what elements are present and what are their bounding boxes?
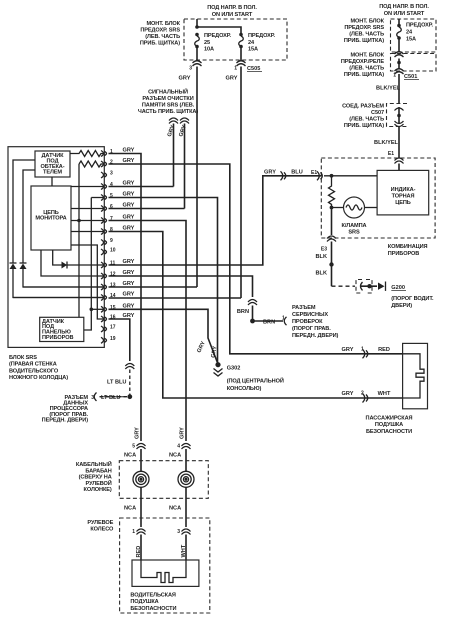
svg-text:РАЗЪЕМ: РАЗЪЕМ (292, 305, 316, 311)
wire: LT BLU dashed segment (129, 370, 131, 397)
svg-text:ПОД НАПР. В ПОЛ.: ПОД НАПР. В ПОЛ. (379, 4, 429, 10)
wire: monitor to pin8 (71, 231, 104, 233)
svg-text:КОЛЕСО: КОЛЕСО (90, 527, 114, 533)
svg-text:10А: 10А (204, 47, 214, 53)
svg-text:GRY: GRY (123, 292, 135, 298)
svg-text:3: 3 (189, 66, 192, 72)
SRS connector pin terminals column (101, 151, 107, 344)
label: signal connector for SRS memory clearing (138, 88, 199, 116)
svg-text:G200: G200 (391, 285, 405, 291)
svg-text:(ПОД ЦЕНТРАЛЬНОЙ: (ПОД ЦЕНТРАЛЬНОЙ (227, 377, 284, 385)
svg-text:GRY: GRY (123, 226, 135, 232)
svg-text:БЕЗОПАСНОСТИ: БЕЗОПАСНОСТИ (366, 429, 412, 435)
wire: BLK/YEL vertical (398, 74, 400, 104)
svg-text:БАРАБАН: БАРАБАН (85, 468, 111, 474)
svg-text:GRY: GRY (123, 181, 135, 187)
connector C501 at relay box exit (393, 69, 419, 80)
svg-text:GRY: GRY (123, 303, 135, 309)
svg-text:NCA: NCA (124, 453, 136, 459)
connector pin1 in steering wheel (137, 529, 146, 535)
connector pin4 above cable reel (182, 444, 191, 450)
wire: sensor to monitor circuit (51, 177, 53, 186)
svg-text:ДВЕРИ): ДВЕРИ) (391, 303, 412, 309)
junction dot at lamp branch (330, 174, 334, 178)
resistor R1 on pin1 wire (70, 151, 104, 157)
svg-text:ПРИБ. ЩИТКА): ПРИБ. ЩИТКА) (344, 123, 384, 129)
wire: pin2 GRY to passenger airbag RED (109, 164, 403, 354)
svg-text:RED: RED (378, 347, 390, 353)
connector bracket at G200 (dashed) (356, 280, 362, 294)
svg-text:ТЕЛЕМ: ТЕЛЕМ (43, 170, 62, 176)
svg-text:3: 3 (177, 529, 180, 535)
svg-text:1: 1 (393, 73, 396, 79)
svg-text:GRY: GRY (179, 76, 191, 82)
svg-text:1: 1 (132, 529, 135, 535)
svg-text:LT BLU: LT BLU (107, 380, 126, 386)
svg-text:ТОРНАЯ: ТОРНАЯ (392, 194, 415, 200)
fuse box dashed enclosure (left) (184, 19, 287, 60)
fuse F24 (ПРЕДОХР. 24 15A) (239, 33, 276, 60)
wire: feed into right fuse (398, 19, 400, 25)
label: РАЗЪЕМ СЕРВИСНЫХ ПРОВЕРОК (292, 305, 339, 339)
svg-text:WHT: WHT (181, 544, 187, 557)
svg-text:GRY: GRY (123, 281, 135, 287)
svg-text:GRY: GRY (123, 158, 135, 164)
connector E3 at cluster bottom (327, 236, 336, 242)
connector inline on pin12 wire (service check) (248, 300, 257, 306)
svg-text:ПЕРЕДН. ДВЕРИ): ПЕРЕДН. ДВЕРИ) (42, 417, 89, 423)
svg-text:(ПОРОГ ПРАВ.: (ПОРОГ ПРАВ. (292, 326, 331, 332)
wire: pin6 GRY to signal connector 2 (109, 208, 185, 210)
svg-text:GRY: GRY (123, 259, 135, 265)
svg-text:C505: C505 (247, 66, 260, 72)
svg-text:BRN: BRN (263, 319, 275, 325)
svg-text:РУЛЕВОЕ: РУЛЕВОЕ (87, 520, 113, 526)
wire: pin5 row from internal riser (91, 197, 104, 199)
svg-text:BLK/YEL: BLK/YEL (376, 86, 401, 92)
svg-text:BLK: BLK (316, 254, 328, 260)
svg-text:ПОДУШКА: ПОДУШКА (130, 599, 158, 605)
cowl sensor box (ДАТЧИК ПОД ОБТЕКАТЕЛЕМ) (35, 151, 70, 177)
wire: pin13 GRY to fuse25 riser (109, 286, 198, 288)
junction dot at fuse feed (195, 25, 199, 29)
svg-text:SRS: SRS (348, 230, 360, 236)
svg-text:ПРЕДОХР. SRS: ПРЕДОХР. SRS (344, 25, 384, 31)
wire: BLK/YEL vertical lower (398, 127, 400, 159)
connector: signal connector terminal 2 (180, 118, 189, 124)
wire: pin1 GRY to cable reel pin5 (109, 154, 142, 442)
connector pin3 in steering wheel (182, 529, 191, 535)
svg-text:GRY: GRY (123, 313, 135, 319)
steering wheel dashed box (120, 518, 210, 613)
resistor R3 (cluster) vertical (329, 176, 335, 208)
wire: pin7 GRY to cable reel pin4 (109, 221, 187, 442)
svg-text:GRY: GRY (342, 347, 354, 353)
cable reel spiral left (133, 471, 149, 487)
driver airbag box (132, 560, 199, 586)
wire: lamp junction down to E3 exit (331, 208, 333, 236)
wire: fuse25 GRY vertical down to SRS pin13 (196, 67, 198, 288)
wire: feed into fuse box, junction (197, 19, 241, 34)
svg-text:4: 4 (177, 444, 180, 450)
wire: pin11 GRY to cluster E1 (109, 176, 322, 265)
connector C507 dashed bracket (387, 104, 408, 127)
svg-text:5: 5 (132, 444, 135, 450)
svg-text:НОЖНОГО КОЛОДЦА): НОЖНОГО КОЛОДЦА) (9, 375, 68, 381)
svg-text:BLU: BLU (291, 170, 303, 176)
svg-text:ON ИЛИ START: ON ИЛИ START (212, 12, 253, 18)
svg-text:ПРИБ. ЩИТКА): ПРИБ. ЩИТКА) (140, 41, 180, 47)
svg-text:(ЛЕВ. ЧАСТЬ: (ЛЕВ. ЧАСТЬ (349, 117, 384, 123)
pin numbers 1-17,19 (110, 149, 116, 342)
wire: pin16 GRY to data link connector (LT BLU) (109, 319, 130, 361)
wire: pin13 row inside (23, 286, 104, 288)
svg-text:25: 25 (204, 40, 210, 46)
svg-text:1: 1 (282, 316, 285, 322)
label: МОНТ. БЛОК ПРЕДОХР./РЕЛЕ (341, 53, 385, 79)
node: power feed label (ON or START), left (207, 5, 257, 18)
wire: NCA into cable reel left (140, 449, 142, 472)
wire: signal2 vertical down to SRS pin6 (184, 124, 186, 209)
wire: WHT into driver airbag (185, 535, 187, 561)
driver airbag squib (igniter) (141, 560, 186, 583)
svg-text:GRY: GRY (123, 215, 135, 221)
splice dot data link (127, 394, 132, 399)
svg-text:ВОДИТЕЛЬСКОГО: ВОДИТЕЛЬСКОГО (9, 368, 59, 374)
svg-text:ЦЕПЬ: ЦЕПЬ (395, 200, 411, 206)
wire: signal1 vertical down to SRS pin4 (173, 124, 175, 187)
svg-text:GRY: GRY (135, 427, 141, 439)
svg-text:КОМБИНАЦИЯ: КОМБИНАЦИЯ (388, 244, 428, 250)
wire: monitor right edge to pin16 (data line) (71, 245, 104, 319)
svg-text:ПРИБ. ЩИТКА): ПРИБ. ЩИТКА) (344, 38, 384, 44)
wire: pin14 GRY to fuse24 riser (109, 297, 242, 299)
diode D3 (right) on pin11 wire (62, 262, 68, 269)
wire through relay box with splice dot (398, 59, 400, 70)
label: РУЛЕВОЕ КОЛЕСО (87, 520, 114, 533)
node: power feed label (ON or START), right (379, 4, 429, 17)
svg-text:ПЕРЕДН. ДВЕРИ): ПЕРЕДН. ДВЕРИ) (292, 333, 339, 339)
connector: data link half terminal (94, 393, 96, 401)
wire: pin15 row from riser junction (91, 308, 104, 310)
svg-text:(ПОРОГ ВОДИТ.: (ПОРОГ ВОДИТ. (391, 296, 434, 302)
wire: NCA below reel right (185, 487, 187, 527)
svg-text:LT BLU: LT BLU (101, 395, 120, 401)
SRS unit outer box (8, 147, 104, 348)
wire: NCA below reel left (140, 487, 142, 527)
svg-text:К/ЛАМПА: К/ЛАМПА (342, 223, 367, 229)
wire: R2 branch down to instrument panel sensor, splice at pin7 row (78, 164, 80, 317)
svg-text:NCA: NCA (169, 453, 181, 459)
wire: monitor to pin7 with splice to R2 branch (71, 220, 104, 222)
SRS warning lamp (К/ЛАМПА SRS) (332, 197, 378, 236)
cable reel spiral right (178, 471, 194, 487)
svg-text:RED: RED (136, 546, 142, 558)
svg-text:ПРЕДОХР.: ПРЕДОХР. (406, 23, 434, 29)
label: ПАССАЖИРСКАЯ ПОДУШКА БЕЗОПАСНОСТИ (366, 416, 413, 435)
svg-text:GRY: GRY (123, 148, 135, 154)
svg-text:C507: C507 (371, 110, 384, 116)
connector pin 3 at fuse box exit (189, 61, 201, 72)
svg-text:КОЛОНКЕ): КОЛОНКЕ) (84, 487, 112, 493)
diode D1 (up) (10, 264, 17, 270)
wire: monitor to pin6 (71, 208, 104, 210)
wire: RED into driver airbag (140, 535, 142, 561)
svg-text:BLK: BLK (316, 271, 328, 277)
label: РАЗЪЕМ ДАННЫХ ПРОЦЕССОРА (42, 395, 89, 423)
svg-text:GRY: GRY (180, 427, 186, 439)
wire: BLK down from E3 with splice (331, 242, 333, 287)
svg-text:GRY: GRY (264, 170, 276, 176)
svg-text:ПРЕДОХР.: ПРЕДОХР. (204, 33, 232, 39)
passenger airbag box (403, 343, 428, 408)
svg-text:ВОДИТЕЛЬСКАЯ: ВОДИТЕЛЬСКАЯ (130, 593, 176, 599)
wire: E1 entry to indicator circuit box (398, 164, 400, 171)
wire: pin14 row inside (13, 297, 104, 299)
svg-text:КОНСОЛЬЮ): КОНСОЛЬЮ) (227, 386, 262, 392)
wire: pin15 GRY to G302 (slant) (109, 309, 219, 364)
svg-text:E1: E1 (388, 151, 394, 157)
connector: signal connector terminal 1 (169, 118, 178, 124)
wire: internal riser pin5-pin15 (84, 198, 92, 331)
label: СОЕД. РАЗЪЕМ C507 (342, 104, 384, 130)
svg-text:NCA: NCA (169, 506, 181, 512)
svg-text:1: 1 (234, 66, 237, 72)
svg-text:КАБЕЛЬНЫЙ: КАБЕЛЬНЫЙ (76, 460, 112, 468)
connector between fuse box and relay box (395, 52, 404, 57)
relay box dashed enclosure (391, 54, 437, 72)
wire: LT BLU dashed to data link connector pin 3 (97, 396, 127, 398)
diode D2 (up) (20, 264, 27, 270)
wire 1 labels: GRY 1 RED to passenger airbag (342, 347, 390, 359)
connector inline on pin16 wire (125, 364, 134, 370)
wire: pin5 GRY down to G302 (109, 198, 218, 365)
ground G200 symbol (arrow into bar) (378, 283, 385, 290)
svg-text:РАЗЪЕМ ОЧИСТКИ: РАЗЪЕМ ОЧИСТКИ (142, 96, 193, 102)
fuse box dashed enclosure (right) (391, 19, 437, 52)
svg-text:ON ИЛИ START: ON ИЛИ START (384, 11, 425, 17)
svg-text:24: 24 (406, 30, 413, 36)
svg-text:(СВЕРХУ НА: (СВЕРХУ НА (79, 475, 112, 481)
label: КАБЕЛЬНЫЙ БАРАБАН (76, 460, 112, 493)
monitor circuit box (ЦЕПЬ МОНИТОРА) (31, 186, 71, 250)
svg-text:17: 17 (110, 325, 116, 331)
svg-text:БЛОК SRS: БЛОК SRS (9, 355, 37, 361)
wire: sensor left terminal 1 to diode D1 column (13, 160, 35, 263)
svg-text:C501: C501 (404, 74, 417, 80)
wire: dashed run to G200 (332, 285, 356, 287)
label: ВОДИТЕЛЬСКАЯ ПОДУШКА БЕЗОПАСНОСТИ (130, 593, 176, 612)
svg-text:ПОДУШКА: ПОДУШКА (375, 422, 403, 428)
fuse F25 (ПРЕДОХР. 25 10A) (195, 33, 232, 60)
svg-text:СЕРВИСНЫХ: СЕРВИСНЫХ (292, 312, 328, 318)
connector pin5 above cable reel (137, 444, 146, 450)
wire 2 labels: GRY 2 WHT to passenger airbag (342, 391, 391, 403)
svg-text:СОЕД. РАЗЪЕМ: СОЕД. РАЗЪЕМ (342, 104, 384, 110)
svg-text:МОНИТОРА: МОНИТОРА (35, 216, 66, 222)
connector pin 1 / C505 at fuse box exit (234, 61, 262, 72)
svg-text:ПРЕДОХР./РЕЛЕ: ПРЕДОХР./РЕЛЕ (341, 59, 385, 65)
connector E1 top of cluster (388, 151, 404, 164)
resistor R2 on pin2 wire (79, 161, 104, 167)
wire: pin12 GRY to service check connector (109, 276, 253, 297)
passenger airbag squib (igniter) (403, 354, 424, 398)
svg-text:GRY: GRY (123, 203, 135, 209)
svg-text:NCA: NCA (124, 506, 136, 512)
label: МОНТ. БЛОК ПРЕДОХР. SRS (right) (344, 19, 385, 45)
svg-text:GRY: GRY (123, 270, 135, 276)
wire: cluster internal top run to indicator box (324, 175, 377, 177)
svg-text:СИГНАЛЬНЫЙ: СИГНАЛЬНЫЙ (148, 88, 188, 96)
svg-text:G302: G302 (227, 366, 241, 372)
svg-text:GRY: GRY (226, 76, 238, 82)
svg-text:3: 3 (91, 395, 94, 401)
svg-text:15А: 15А (248, 47, 258, 53)
svg-text:ПРИБ. ЩИТКА): ПРИБ. ЩИТКА) (344, 72, 384, 78)
svg-text:МОНТ. БЛОК: МОНТ. БЛОК (350, 19, 384, 25)
connector C507 symbols: arrow, splice, arrow (395, 107, 404, 127)
label: (ПОРОГ ВОДИТ. ДВЕРИ) (391, 296, 434, 309)
svg-text:ПРЕДОХР.: ПРЕДОХР. (248, 33, 276, 39)
svg-text:БЕЗОПАСНОСТИ: БЕЗОПАСНОСТИ (130, 606, 176, 612)
svg-text:(ПРАВАЯ СТЕНКА: (ПРАВАЯ СТЕНКА (9, 362, 57, 368)
indicator circuit box (ИНДИКАТОРНАЯ ЦЕПЬ) (377, 170, 429, 215)
svg-text:WHT: WHT (378, 391, 391, 397)
svg-text:GRY: GRY (123, 192, 135, 198)
svg-text:BLK/YEL: BLK/YEL (374, 140, 399, 146)
svg-text:15А: 15А (406, 37, 416, 43)
svg-text:МОНТ. БЛОК: МОНТ. БЛОК (146, 21, 180, 27)
GRY labels on SRS pin wires (123, 148, 135, 320)
svg-text:ПРОВЕРОК: ПРОВЕРОК (292, 319, 323, 325)
wire: monitor to pin4 (71, 186, 104, 188)
label: КОМБИНАЦИЯ ПРИБОРОВ (388, 244, 428, 257)
svg-text:19: 19 (110, 336, 116, 342)
wire: monitor bottom to pin12 (41, 250, 104, 276)
svg-text:GRY: GRY (342, 391, 354, 397)
label: МОНТ. БЛОК ПРЕДОХР. SRS (140, 21, 181, 47)
svg-text:ЧАСТЬ ПРИБ. ЩИТКА): ЧАСТЬ ПРИБ. ЩИТКА) (138, 109, 199, 115)
svg-text:ПРИБОРОВ: ПРИБОРОВ (42, 335, 73, 341)
wire: NCA into cable reel right (185, 449, 187, 472)
svg-text:ПАССАЖИРСКАЯ: ПАССАЖИРСКАЯ (366, 416, 413, 422)
svg-text:10: 10 (110, 248, 116, 254)
svg-text:9: 9 (110, 238, 113, 244)
instrument cluster dashed box (КОМБИНАЦИЯ ПРИБОРОВ) (321, 158, 435, 238)
svg-text:ПАМЯТИ SRS (ЛЕВ.: ПАМЯТИ SRS (ЛЕВ. (142, 103, 195, 109)
ground G302: junction dot and symbol (214, 362, 284, 392)
wire: pin8 GRY to passenger airbag WHT (109, 232, 403, 399)
svg-text:МОНТ. БЛОК: МОНТ. БЛОК (350, 53, 384, 59)
svg-text:E1: E1 (311, 170, 317, 176)
svg-text:3: 3 (110, 171, 113, 177)
wire: pin4 GRY up to signal connector 1 (drawn with signal wire) (109, 186, 174, 188)
label: БЛОК SRS (9, 355, 68, 381)
svg-text:РУЛЕВОЙ: РУЛЕВОЙ (86, 479, 112, 487)
svg-text:BRN: BRN (237, 309, 249, 315)
connector terminal in bracket (361, 282, 363, 290)
svg-text:E3: E3 (321, 247, 327, 253)
junction dot at lamp bottom (330, 206, 334, 210)
svg-text:24: 24 (248, 40, 255, 46)
svg-text:ПРИБОРОВ: ПРИБОРОВ (388, 251, 419, 257)
svg-text:(ЛЕВ. ЧАСТЬ: (ЛЕВ. ЧАСТЬ (349, 66, 384, 72)
fuse F24 right (ПРЕДОХР. 24 15A) (397, 23, 434, 53)
instrument panel sensor box (ДАТЧИК ПОД ПАНЕЛЬЮ ПРИБОРОВ) (40, 317, 84, 341)
svg-text:ПОД НАПР. В ПОЛ.: ПОД НАПР. В ПОЛ. (207, 5, 257, 11)
svg-text:ИНДИКА-: ИНДИКА- (391, 187, 416, 193)
wire: monitor bottom to diode D3 and pin11 (53, 250, 104, 265)
cable reel dashed box (119, 461, 208, 499)
wire: sensor left terminal 2 to diode D2 column (23, 170, 35, 263)
svg-text:ПРЕДОХР. SRS: ПРЕДОХР. SRS (140, 28, 180, 34)
svg-text:(ЛЕВ. ЧАСТЬ: (ЛЕВ. ЧАСТЬ (145, 34, 180, 40)
wire: fuse24 GRY vertical down to SRS pin14 (240, 67, 242, 299)
svg-text:(ЛЕВ. ЧАСТЬ: (ЛЕВ. ЧАСТЬ (349, 32, 384, 38)
